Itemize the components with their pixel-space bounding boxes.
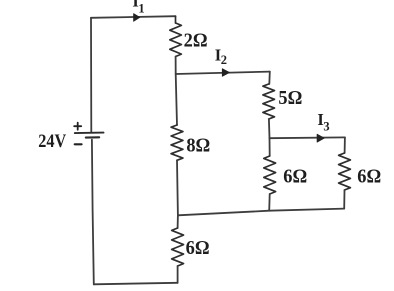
- wire: node C horizontal to right 6Ω (I3 wire): [270, 136, 345, 139]
- wire: node B down to 8Ω: [176, 74, 177, 125]
- current arrow I3: [317, 134, 324, 142]
- label I2: [215, 45, 227, 67]
- wire: right 6Ω bottom to node D: [343, 190, 345, 209]
- resistor 6Ω (bottom): [172, 228, 184, 266]
- label I1: [132, 0, 144, 16]
- svg-text:1: 1: [138, 2, 144, 16]
- svg-text:5Ω: 5Ω: [278, 88, 302, 110]
- wire: 8Ω bottom to node D junction: [176, 160, 179, 215]
- wire: middle 6Ω bottom to node D wire: [268, 194, 271, 211]
- svg-text:6Ω: 6Ω: [357, 166, 381, 188]
- label I3: [317, 110, 329, 134]
- svg-text:2: 2: [221, 53, 227, 67]
- wire: 2Ω bottom to node B junction: [175, 57, 177, 75]
- svg-text:2Ω: 2Ω: [184, 30, 208, 52]
- resistor 8Ω (middle): [171, 125, 183, 160]
- wire: node C down to middle 6Ω: [269, 138, 271, 156]
- wire: node B horizontal to 5Ω branch (I2 wire): [176, 72, 270, 74]
- current arrow I1: [134, 14, 140, 22]
- resistor 2Ω (top): [170, 16, 182, 56]
- resistor 5Ω: [263, 84, 275, 119]
- label 24V: [38, 130, 66, 151]
- label 6Ω middle: [283, 166, 307, 188]
- svg-text:8Ω: 8Ω: [186, 135, 210, 157]
- wire: 5Ω bottom to node C junction: [268, 119, 271, 138]
- label 6Ω bottom: [186, 237, 210, 259]
- label 2Ω: [184, 30, 208, 52]
- battery - polarity mark: [75, 143, 82, 145]
- wire: 5Ω branch vertical stub from I2 wire: [268, 72, 271, 84]
- label 8Ω: [186, 135, 210, 157]
- svg-text:6Ω: 6Ω: [283, 166, 307, 188]
- label 5Ω: [278, 88, 302, 110]
- wire: top horizontal from battery + to 2Ω: [91, 16, 176, 18]
- wire: node D horizontal (8Ω bottom across to right branch): [178, 209, 344, 216]
- wire: bottom 6Ω to bottom wire: [177, 266, 179, 283]
- wire: bottom horizontal: [94, 283, 178, 285]
- wire: node D down to bottom 6Ω: [177, 215, 179, 228]
- resistor 6Ω (right): [339, 153, 351, 190]
- resistor 6Ω (middle branch): [264, 156, 276, 194]
- battery + polarity mark: [74, 123, 81, 130]
- label 6Ω right: [357, 166, 381, 188]
- wire: left vertical upper (battery + to top wire): [90, 18, 92, 132]
- svg-text:24V: 24V: [38, 130, 66, 151]
- wire: left vertical lower (battery - to bottom wire): [92, 140, 94, 285]
- svg-text:6Ω: 6Ω: [186, 237, 210, 259]
- wire: right branch vertical stub from I3 wire: [344, 137, 346, 153]
- current arrow I2: [222, 69, 229, 77]
- battery V1 24V: [75, 133, 104, 138]
- svg-text:3: 3: [323, 120, 329, 134]
